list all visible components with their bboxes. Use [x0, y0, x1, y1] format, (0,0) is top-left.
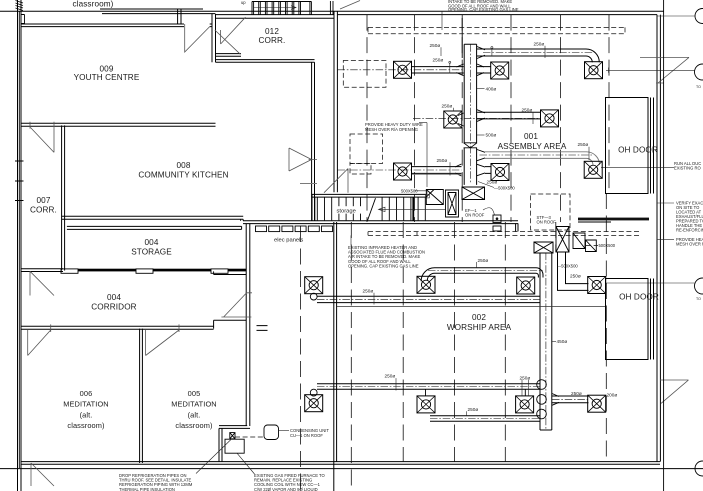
grid worship w3 — [504, 222, 506, 462]
leader top bubble — [657, 15, 695, 17]
svg-text:OPENING. CAP EXISTING GAS LINE: OPENING. CAP EXISTING GAS LINE — [448, 7, 519, 12]
gray existing line under B4 — [412, 173, 462, 175]
grid bubble 1 — [695, 9, 703, 24]
grid line I short — [350, 222, 352, 491]
svg-text:C/W 22Ø VAPOR AND 9Ø LIQUID: C/W 22Ø VAPOR AND 9Ø LIQUID — [254, 487, 318, 491]
dashed removed equipment box — [350, 134, 383, 164]
leader to furnace note — [237, 453, 255, 474]
duct W5 right — [552, 396, 589, 403]
door east wall upper — [640, 57, 689, 83]
WORSHIP DUCTS — [305, 218, 649, 430]
svg-text:up: up — [241, 0, 246, 5]
door kitchen east pair — [289, 148, 348, 193]
diffuser W1b — [517, 277, 535, 294]
leader top note — [441, 11, 443, 30]
unit small box a — [573, 233, 585, 249]
svg-text:250ø: 250ø — [522, 108, 533, 113]
diffuser A3 — [585, 62, 603, 79]
leader mesh note — [657, 239, 674, 241]
svg-text:classroom): classroom) — [175, 421, 212, 430]
svg-text:250ø: 250ø — [534, 41, 545, 46]
diffuser W4a — [417, 396, 435, 413]
svg-text:TO: TO — [696, 85, 701, 89]
gray existing line kitchen — [300, 183, 317, 185]
trunk1 transition joint — [464, 143, 477, 148]
oh door 1 rect — [606, 98, 654, 194]
grid worship w2 — [454, 222, 456, 462]
FURNACE CLUSTER — [351, 11, 640, 245]
svg-text:EXISTING RO: EXISTING RO — [674, 166, 701, 171]
svg-text:004: 004 — [107, 293, 121, 302]
wall bottom single full width — [0, 468, 703, 470]
grid worship w1 — [402, 222, 404, 462]
door youth sw — [30, 122, 54, 153]
wall long south of stairs — [243, 221, 518, 224]
svg-text:005: 005 — [188, 389, 201, 398]
svg-text:001: 001 — [524, 132, 538, 141]
wall worship west double — [334, 222, 337, 491]
stair arrow top — [254, 6, 296, 10]
svg-text:—500X500: —500X500 — [494, 185, 515, 190]
svg-text:250ø: 250ø — [442, 103, 453, 108]
wall building east double — [657, 15, 660, 462]
door youth top — [185, 24, 210, 52]
door east wall lower — [660, 380, 689, 403]
duct W2 long — [317, 296, 540, 302]
svg-text:MESH OVER R: MESH OVER R — [676, 242, 703, 247]
wall jog x518 down — [516, 223, 518, 231]
wall stair south double — [216, 15, 335, 19]
svg-text:(alt.: (alt. — [80, 411, 93, 420]
door meditation 005 — [146, 324, 179, 355]
duct trunk1 vertical — [464, 44, 476, 185]
bell B6 — [477, 47, 485, 59]
svg-text:250ø: 250ø — [433, 57, 444, 62]
svg-text:250ø: 250ø — [437, 158, 448, 163]
svg-text:ASSEMBLY AREA: ASSEMBLY AREA — [498, 142, 567, 151]
diffuser A5 — [541, 110, 559, 127]
dashed band top — [368, 27, 625, 33]
wall top right inner line — [337, 14, 657, 16]
svg-text:classroom): classroom) — [72, 0, 113, 9]
svg-text:ON ROOF: ON ROOF — [465, 212, 485, 217]
grid line G solid — [663, 0, 665, 491]
wall stub above kitchen — [216, 54, 242, 57]
svg-text:CORRIDOR: CORRIDOR — [91, 303, 136, 312]
leader from mesh note — [419, 123, 427, 187]
furnace box 2 — [446, 190, 459, 217]
wall meditation divider double — [140, 329, 143, 463]
GRID BUBBLES — [601, 9, 703, 477]
grid line H short — [300, 226, 302, 491]
svg-text:classroom): classroom) — [67, 421, 104, 430]
dashed demolition lines — [368, 232, 640, 236]
diffuser A7 — [491, 164, 509, 181]
svg-text:250ø: 250ø — [468, 407, 479, 412]
diffuser A4 left of trunk — [444, 111, 462, 128]
svg-text:250ø: 250ø — [578, 142, 589, 147]
svg-text:250ø: 250ø — [363, 288, 374, 293]
svg-text:CORR.: CORR. — [259, 36, 286, 45]
grid worship w4 — [555, 222, 557, 252]
unit tall box — [556, 227, 569, 253]
diffuser W3r — [588, 277, 606, 294]
svg-text:MEDITATION: MEDITATION — [63, 400, 108, 409]
svg-text:YOUTH CENTRE: YOUTH CENTRE — [74, 73, 140, 82]
duct unit down elbow — [558, 252, 589, 290]
STAIRS MID — [317, 197, 446, 220]
svg-text:500ø: 500ø — [486, 132, 497, 137]
wall top single full width — [0, 10, 664, 12]
ELEC PANELS — [256, 226, 333, 232]
wall corridor004 bottom double with door openings — [21, 326, 214, 329]
grid line F lower — [605, 193, 607, 462]
small box 2 — [493, 226, 501, 231]
ASSEMBLY DUCTS — [300, 44, 603, 199]
wall stair enclosure top double — [312, 194, 426, 197]
leader to note run-all-duct — [601, 166, 674, 168]
leader to drop note — [196, 439, 232, 474]
wall thin extension storage SE — [214, 271, 247, 274]
svg-text:TO: TO — [696, 297, 701, 301]
svg-text:400ø: 400ø — [486, 86, 497, 91]
curly leader — [483, 208, 495, 215]
leader verify note — [657, 202, 674, 204]
wall classroom bottom lines — [100, 9, 215, 14]
wall east of storage/corridor/005 continuous double — [246, 223, 250, 426]
svg-text:OPENING. CAP EXISTING GAS LINE: OPENING. CAP EXISTING GAS LINE — [348, 263, 419, 268]
wall kitchen top double — [216, 60, 315, 63]
wall vertical x212 corr012 west — [212, 14, 216, 63]
wall corridor SE jog — [214, 320, 247, 328]
GRID LINES — [301, 0, 664, 491]
leader to bubble 3 — [605, 282, 695, 284]
grid line F — [608, 15, 610, 193]
wall storage bottom thick segments — [78, 269, 136, 272]
stair arrow mid — [379, 207, 447, 211]
svg-text:OH DOOR: OH DOOR — [618, 146, 658, 155]
svg-text:250ø: 250ø — [430, 43, 441, 48]
duct W1 upper — [435, 268, 537, 273]
wall kitchen east double with door opening — [312, 62, 315, 220]
CONDENSING UNIT AREA — [196, 326, 289, 474]
trunk2 neck circles — [537, 380, 547, 390]
svg-text:250ø: 250ø — [571, 391, 582, 396]
svg-text:250ø: 250ø — [487, 179, 498, 184]
svg-text:250ø: 250ø — [385, 374, 396, 379]
return grille box worship — [534, 242, 553, 253]
STAIRS TOP — [252, 1, 333, 15]
wall youth centre bottom double — [21, 123, 216, 126]
duct W4 — [426, 389, 526, 396]
wall corr007 east / kitchen west double — [62, 125, 65, 270]
refrigerant valve box — [230, 433, 235, 439]
svg-text:500X500: 500X500 — [599, 243, 616, 248]
svg-text:250ø: 250ø — [478, 258, 489, 263]
svg-text:storage: storage — [337, 209, 356, 215]
svg-text:STORAGE: STORAGE — [131, 247, 172, 256]
svg-text:250ø: 250ø — [570, 274, 581, 279]
door corr012 double X — [215, 17, 246, 54]
elbow B6 — [586, 49, 599, 62]
duct branch B2 — [477, 67, 491, 73]
diffuser A8 — [584, 161, 602, 178]
stair break lines — [368, 198, 376, 220]
grid bubble 4 — [695, 461, 703, 476]
wall corridor top west segment — [21, 269, 63, 272]
svg-text:CORR.: CORR. — [30, 205, 57, 214]
wall jog above furnace — [219, 426, 250, 462]
grid line E — [560, 15, 562, 222]
duct B1 dashed existing — [343, 61, 386, 88]
door corr007 south — [30, 271, 54, 295]
svg-text:—500X500: —500X500 — [557, 264, 578, 269]
DUCT LABELS — [363, 41, 618, 416]
svg-text:(alt.: (alt. — [188, 411, 201, 420]
svg-text:WORSHIP AREA: WORSHIP AREA — [447, 323, 512, 332]
svg-text:006: 006 — [80, 389, 93, 398]
grid bubble 3 — [695, 278, 703, 294]
svg-text:200ø: 200ø — [607, 392, 618, 397]
dashed stf3 box — [531, 194, 570, 230]
svg-text:CU—1 ON ROOF: CU—1 ON ROOF — [290, 433, 323, 438]
svg-text:OH DOOR: OH DOOR — [619, 293, 659, 302]
duct branch B4 — [412, 167, 462, 174]
wall kitchen bottom double — [62, 216, 244, 221]
svg-text:THERMAL PIPE INSULATION: THERMAL PIPE INSULATION — [119, 487, 175, 491]
elec panel boxes — [256, 226, 267, 232]
svg-text:004: 004 — [145, 238, 159, 247]
svg-text:MEDITATION: MEDITATION — [171, 400, 216, 409]
grid line C — [461, 15, 463, 222]
svg-text:002: 002 — [472, 313, 486, 322]
label storage under stairs — [336, 206, 362, 214]
wall vertical jog x177 — [178, 9, 181, 24]
stair risers top — [252, 2, 311, 15]
diffuser A1 — [394, 61, 412, 78]
stair risers mid — [317, 197, 425, 220]
svg-text:MESH OVER R/A OPENING: MESH OVER R/A OPENING — [365, 127, 418, 132]
diffuser W1a — [417, 276, 435, 293]
thin line across worship — [337, 306, 605, 308]
grid line D — [510, 15, 512, 222]
unit small box b — [586, 240, 597, 252]
wall storage top double — [67, 226, 242, 229]
svg-text:ON ROOF: ON ROOF — [537, 219, 557, 224]
diffuser W2a — [305, 277, 323, 294]
duct branch B3 — [477, 112, 541, 119]
grid bubble 2 — [695, 64, 703, 80]
wall corr012 east double — [334, 11, 337, 192]
grid line A — [366, 15, 368, 222]
svg-text:COMMUNITY KITCHEN: COMMUNITY KITCHEN — [138, 171, 228, 180]
duct branch B5 — [485, 167, 491, 174]
svg-text:elec panels: elec panels — [274, 237, 303, 243]
wall left hatch ticks — [15, 1, 25, 201]
wall building bottom double — [21, 462, 660, 465]
door top right corner — [340, 1, 360, 10]
duct branch B7 gray — [485, 152, 587, 159]
svg-text:007: 007 — [37, 196, 51, 205]
duct trunk2 vertical — [540, 253, 552, 430]
lintel bar — [578, 218, 649, 221]
wall break symbol — [257, 326, 268, 331]
diffuser W5b — [588, 395, 606, 412]
door corridor east — [221, 293, 252, 317]
duct W3 — [317, 384, 540, 389]
dashed refrigerant line — [235, 436, 264, 438]
duct branch B6 top — [477, 49, 586, 56]
bell B1 — [456, 64, 463, 76]
condensing unit box — [264, 425, 279, 440]
wall youth centre top double — [21, 24, 212, 27]
svg-text:012: 012 — [265, 27, 279, 36]
OH DOORS — [606, 98, 654, 360]
duct branch B1 — [412, 67, 464, 73]
wall left outer double — [18, 0, 22, 491]
diffuser A6 — [394, 163, 412, 180]
return grille box RA — [462, 187, 485, 200]
diffuser W4b — [516, 396, 534, 413]
oh door 2 rect — [606, 279, 654, 360]
small box with dot — [493, 215, 501, 223]
door bottom left — [31, 463, 54, 486]
furnace box 1 — [426, 190, 443, 205]
svg-text:008: 008 — [177, 161, 191, 170]
grid line B — [414, 15, 416, 222]
svg-text:450ø: 450ø — [557, 339, 568, 344]
leader to bubble 2 — [606, 68, 695, 73]
svg-text:250ø: 250ø — [520, 375, 531, 380]
window frames in storage wall — [61, 269, 78, 273]
furnace box — [225, 439, 244, 453]
diffuser W3a — [305, 395, 323, 412]
diffuser A2 — [491, 62, 509, 79]
neck W2 — [310, 293, 317, 300]
door meditation 006 — [28, 324, 51, 355]
svg-text:RE-ENFORCIN: RE-ENFORCIN — [676, 228, 703, 233]
wall stair enclosure west — [312, 194, 315, 220]
